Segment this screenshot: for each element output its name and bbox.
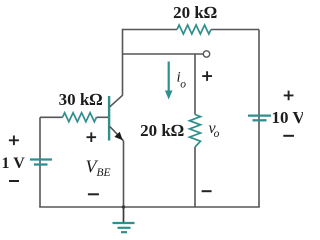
wire tap horizontal	[123, 53, 204, 55]
resistor R_base 30k zigzag	[63, 113, 97, 122]
wire top left segment	[123, 29, 178, 31]
plus vo	[202, 71, 212, 81]
svg-text:30 kΩ: 30 kΩ	[59, 90, 103, 109]
minus VBE	[88, 193, 99, 195]
battery V1 plates	[30, 158, 52, 160]
wire middle branch top	[194, 54, 196, 115]
svg-text:20 kΩ: 20 kΩ	[140, 121, 184, 140]
svg-text:o: o	[180, 79, 186, 91]
plus VBE	[87, 132, 97, 142]
wire bottom	[39, 206, 260, 208]
svg-text:VBE: VBE	[86, 157, 111, 180]
resistor R_mid 20k vertical zigzag	[190, 115, 201, 148]
transistor Q1 collector diagonal	[110, 95, 123, 107]
wire top right segment	[211, 29, 259, 31]
ground bars	[113, 222, 135, 224]
current arrow i_o	[168, 62, 170, 92]
wire emitter vertical	[123, 141, 125, 207]
plus left battery	[9, 136, 19, 146]
minus vo	[202, 190, 212, 192]
svg-text:o: o	[214, 128, 220, 140]
wire middle branch bottom	[194, 147, 196, 207]
minus left battery	[9, 180, 19, 182]
wire collector vertical	[122, 29, 124, 96]
minus right battery	[283, 135, 294, 137]
battery V2 plates	[248, 114, 271, 116]
resistor R_top 20k zigzag	[177, 25, 211, 34]
transistor Q1 emitter diagonal	[110, 127, 124, 141]
ground stub	[123, 207, 125, 223]
transistor Q1 emitter arrowhead	[114, 132, 122, 141]
transistor Q1 base bar	[108, 96, 110, 141]
svg-text:1 V: 1 V	[2, 155, 26, 172]
wire right vertical	[258, 30, 260, 208]
ground junction dot	[122, 205, 125, 208]
wire left vertical	[39, 117, 41, 207]
svg-text:10 V: 10 V	[272, 108, 304, 127]
wire base horizontal left	[40, 116, 63, 118]
wire base horizontal right	[97, 116, 109, 118]
svg-text:20 kΩ: 20 kΩ	[173, 3, 217, 22]
terminal circle	[203, 51, 209, 57]
plus right battery	[284, 91, 294, 101]
